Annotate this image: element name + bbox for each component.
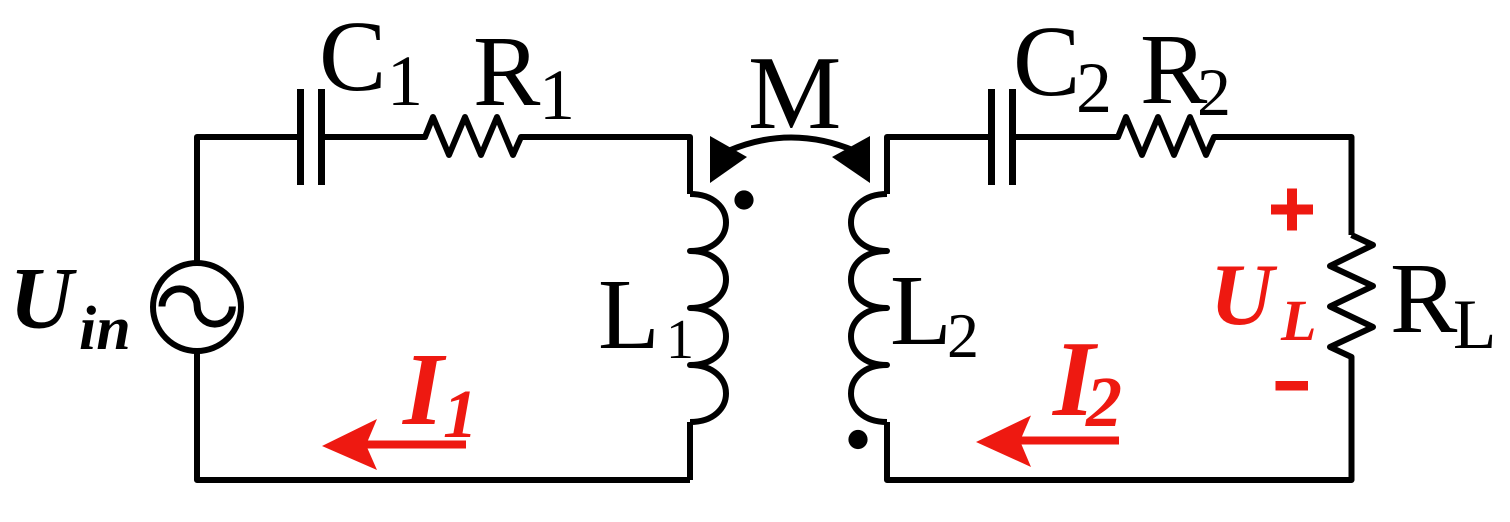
svg-text:C: C [319,0,386,112]
svg-text:U: U [10,251,78,348]
svg-text:L: L [1453,286,1496,364]
svg-text:1: 1 [666,309,694,371]
svg-text:1: 1 [387,41,423,121]
svg-text:L: L [890,254,952,366]
svg-text:1: 1 [443,376,478,452]
svg-text:2: 2 [947,300,979,371]
svg-text:R: R [1390,242,1458,354]
svg-text:in: in [79,295,131,363]
svg-text:2: 2 [1085,362,1122,442]
svg-text:2: 2 [1076,48,1112,128]
svg-text:2: 2 [1197,54,1231,130]
svg-text:C: C [1013,5,1080,117]
svg-text:L: L [598,258,660,370]
svg-text:R: R [473,15,541,127]
svg-text:M: M [748,34,841,151]
svg-text:U: U [1210,247,1278,344]
svg-text:1: 1 [539,55,575,135]
svg-text:L: L [1280,288,1316,353]
svg-text:I: I [401,332,447,447]
